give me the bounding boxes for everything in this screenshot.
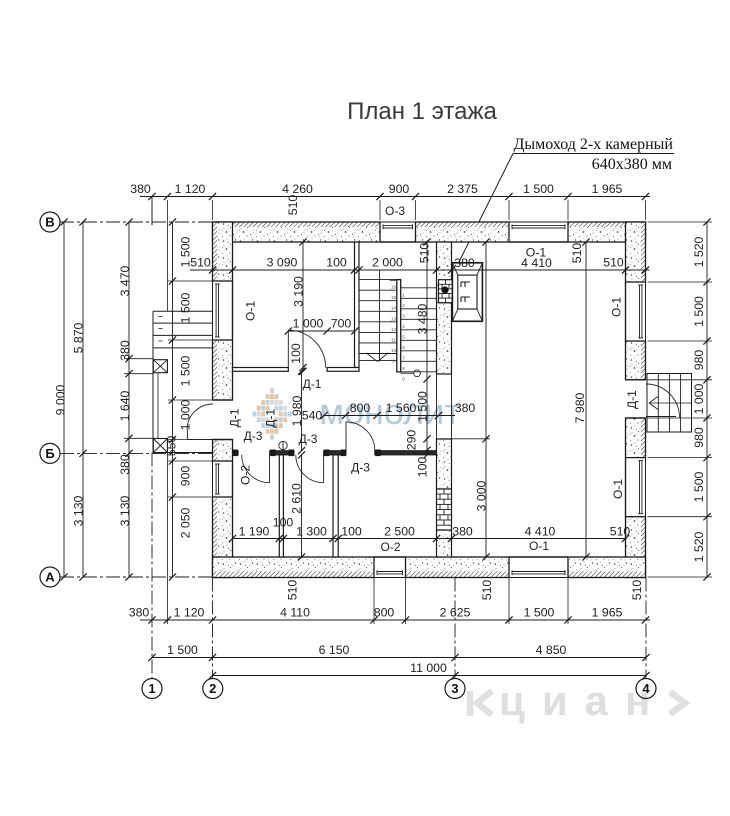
main stair right flight (401, 288, 437, 372)
svg-text:Б: Б (45, 446, 54, 461)
door D-3 to room O-2 (242, 455, 270, 483)
partition right of room 1 (355, 242, 360, 368)
left dimension column inner (165, 218, 193, 580)
svg-text:1 500: 1 500 (179, 355, 193, 386)
bottom dimension row 2 (148, 643, 649, 661)
exterior wall left: pier below door (213, 440, 233, 462)
svg-text:3 000: 3 000 (475, 480, 489, 511)
svg-text:100: 100 (341, 525, 362, 539)
partition under room 1 (left of door) (233, 368, 289, 372)
svg-text:1 980: 1 980 (290, 395, 304, 426)
svg-text:О-2: О-2 (239, 465, 253, 485)
svg-text:1 500: 1 500 (523, 182, 554, 196)
right room dim 7980 (573, 238, 590, 560)
svg-text:510: 510 (603, 256, 624, 270)
exterior stair right (647, 374, 692, 433)
axis line 2 (212, 578, 214, 679)
hall height dim 1980 (290, 368, 305, 455)
svg-text:13: 13 (391, 316, 397, 321)
bottom dimension row 3 (11000) (209, 661, 650, 679)
svg-text:1 500: 1 500 (524, 606, 555, 620)
axis line Bb (60, 452, 213, 454)
svg-text:14: 14 (391, 306, 397, 311)
svg-text:Д-1: Д-1 (303, 377, 322, 391)
svg-text:3 190: 3 190 (292, 276, 306, 307)
svg-text:Д-1: Д-1 (228, 408, 242, 427)
exterior wall left: pier B-window (213, 222, 233, 281)
svg-text:6 150: 6 150 (319, 643, 350, 657)
svg-text:План 1 этажа: План 1 этажа (347, 98, 497, 125)
door D-3 to middle room (346, 422, 375, 451)
svg-text:1 500: 1 500 (179, 292, 193, 323)
main stair center stringer (390, 280, 401, 372)
window O-2 left wall lower (213, 461, 233, 497)
svg-text:510: 510 (480, 580, 494, 601)
door D-3 to room 2 (296, 455, 324, 483)
svg-text:О-1: О-1 (529, 539, 549, 553)
room1 door dim (285, 317, 359, 335)
exterior wall bottom-left pier (213, 557, 375, 578)
svg-text:100: 100 (273, 516, 294, 530)
svg-text:О-1: О-1 (610, 297, 624, 317)
svg-text:11: 11 (391, 337, 396, 342)
axis circle 4 (636, 679, 656, 699)
svg-text:510: 510 (286, 580, 300, 601)
stair step numbers (391, 285, 405, 382)
svg-text:900: 900 (179, 466, 193, 487)
svg-text:2 625: 2 625 (440, 606, 471, 620)
door D-1 left wall (entrance from porch) (187, 400, 233, 440)
hall south partition segment 1 (233, 451, 239, 455)
svg-text:Д-3: Д-3 (351, 461, 370, 475)
bottom wall thickness labels (286, 580, 645, 601)
watermark cian logo (470, 691, 685, 716)
svg-text:3 480: 3 480 (416, 303, 430, 334)
exterior wall top-right pier (568, 222, 646, 242)
svg-text:10: 10 (391, 348, 397, 353)
door D-1 right wall (to exterior stair) (626, 380, 680, 418)
exterior wall bottom-middle pier (406, 557, 510, 578)
svg-text:980: 980 (692, 427, 706, 448)
svg-text:1 965: 1 965 (592, 606, 623, 620)
partition under room 1 (right of door) (327, 368, 359, 372)
svg-text:1 120: 1 120 (174, 606, 205, 620)
vent symbol at partition A (279, 441, 287, 450)
svg-text:1 520: 1 520 (692, 236, 706, 267)
svg-text:380: 380 (118, 454, 132, 475)
svg-text:Д-3: Д-3 (299, 432, 318, 446)
hall south partition segment 2 (270, 451, 294, 455)
exterior wall right: bottom pier (626, 517, 646, 578)
room1 vertical dim 3190/100 (289, 238, 307, 375)
stair dim column 3480/1500/290/100 (405, 238, 431, 477)
svg-text:550: 550 (165, 436, 179, 457)
svg-text:2 000: 2 000 (372, 256, 403, 270)
exterior wall left: pier bottom (213, 497, 233, 578)
svg-text:1 000: 1 000 (179, 399, 193, 430)
svg-text:380: 380 (455, 401, 476, 415)
interior bearing wall upper part (437, 242, 452, 374)
right dimension column (648, 218, 713, 580)
interior bearing wall lower part (437, 439, 452, 557)
svg-text:1 500: 1 500 (167, 643, 198, 657)
svg-text:15: 15 (391, 295, 397, 300)
exterior wall right: pier between window and door (626, 341, 646, 380)
svg-text:800: 800 (350, 401, 371, 415)
svg-text:380: 380 (454, 256, 475, 270)
svg-text:290: 290 (405, 430, 419, 451)
svg-text:4 410: 4 410 (521, 256, 552, 270)
svg-text:О-2: О-2 (380, 540, 400, 554)
svg-text:О-1: О-1 (611, 479, 625, 499)
right room dim 3000 (440, 238, 490, 560)
exterior wall bottom-right pier (568, 557, 646, 578)
axis circle 3 (445, 679, 465, 699)
interior bearing wall opening (437, 374, 452, 439)
svg-text:Д-1: Д-1 (625, 390, 639, 409)
svg-text:4: 4 (642, 681, 650, 696)
svg-text:1: 1 (148, 681, 155, 696)
svg-text:1 000: 1 000 (692, 383, 706, 414)
svg-text:3 130: 3 130 (118, 495, 132, 526)
interior dim row upper (190, 243, 650, 274)
svg-text:7 980: 7 980 (573, 392, 587, 423)
svg-text:Дымоход 2-х камерный: Дымоход 2-х камерный (513, 136, 673, 153)
axis line 1 (151, 197, 153, 226)
stair direction line with arrow (366, 270, 420, 377)
svg-text:2 610: 2 610 (290, 483, 304, 514)
svg-text:510: 510 (570, 243, 584, 264)
door jamb blocks on hall partition (233, 450, 381, 457)
left dimension column 3470/380/1640/380/3130 (118, 218, 132, 580)
stove (452, 263, 482, 322)
svg-text:4 110: 4 110 (280, 606, 310, 620)
svg-text:12: 12 (391, 327, 397, 332)
axis circle B (40, 212, 60, 232)
axis line 4 (645, 578, 647, 679)
svg-text:1 500: 1 500 (692, 471, 706, 502)
svg-text:1 190: 1 190 (239, 525, 270, 539)
svg-text:1 500: 1 500 (692, 296, 706, 327)
svg-text:2 500: 2 500 (384, 525, 415, 539)
svg-text:Д-3: Д-3 (244, 429, 263, 443)
svg-text:3 470: 3 470 (118, 265, 132, 296)
room O-2 height dim 2610 (290, 451, 306, 560)
axis circle A (40, 567, 60, 587)
svg-text:1 300: 1 300 (296, 525, 327, 539)
exterior wall left: pier between windows (213, 340, 233, 400)
svg-text:4 410: 4 410 (525, 525, 556, 539)
porch column 2 (153, 439, 167, 453)
svg-text:380: 380 (452, 525, 473, 539)
bottom interior dim row (229, 516, 631, 543)
svg-text:16: 16 (391, 285, 397, 290)
svg-text:1 520: 1 520 (692, 531, 706, 562)
svg-text:100: 100 (326, 256, 347, 270)
svg-text:4 850: 4 850 (536, 643, 567, 657)
svg-text:3: 3 (451, 681, 458, 696)
svg-text:900: 900 (389, 182, 410, 196)
svg-text:2 050: 2 050 (179, 507, 193, 538)
svg-text:640x380 мм: 640x380 мм (592, 156, 672, 173)
exterior wall right: top pier (626, 222, 646, 282)
porch steps (153, 311, 213, 452)
svg-text:380: 380 (130, 182, 151, 196)
chimney leader line (513, 153, 674, 155)
svg-text:1 500: 1 500 (416, 391, 430, 422)
svg-text:2 375: 2 375 (447, 182, 478, 196)
svg-text:510: 510 (417, 243, 431, 264)
interior wall brick section (437, 489, 452, 530)
svg-text:980: 980 (692, 350, 706, 371)
axis line A (60, 576, 213, 578)
svg-text:1 560: 1 560 (386, 401, 417, 415)
svg-text:510: 510 (630, 580, 644, 601)
axis line 3 (454, 578, 456, 679)
chimney leader dot (441, 286, 448, 293)
svg-text:700: 700 (331, 317, 352, 331)
svg-text:100: 100 (289, 343, 303, 364)
exterior wall right: pier below door (626, 418, 646, 458)
svg-text:В: В (45, 215, 54, 230)
axis circle Bb (40, 443, 60, 463)
svg-text:100: 100 (416, 457, 430, 478)
svg-text:2: 2 (209, 681, 216, 696)
window O-1 top wall (509, 222, 568, 242)
axis line B (60, 221, 213, 223)
porch column 1 (153, 360, 167, 373)
partition A (279, 455, 283, 557)
svg-text:4 260: 4 260 (282, 182, 313, 196)
window O-1 right wall upper (626, 282, 646, 341)
svg-text:3 090: 3 090 (267, 256, 298, 270)
svg-text:510: 510 (610, 525, 631, 539)
bottom dimension row 1 (129, 455, 650, 624)
left witness lines (124, 281, 213, 497)
hall south partition segment 3 (324, 451, 346, 455)
exterior wall top-middle pier (416, 222, 510, 242)
svg-text:1 640: 1 640 (118, 390, 132, 421)
partition B (333, 455, 338, 557)
svg-text:380: 380 (129, 606, 150, 620)
axis circle 1 (142, 679, 162, 699)
window O-1 left wall upper (213, 281, 233, 340)
window O-1 bottom wall (509, 557, 568, 578)
svg-text:О-1: О-1 (244, 301, 258, 321)
chimney brick block in wall (439, 280, 453, 303)
door D-1 room 1 (288, 330, 325, 367)
svg-text:3 130: 3 130 (72, 495, 86, 526)
window O-2 bottom wall (374, 557, 406, 578)
svg-text:О-3: О-3 (385, 204, 405, 218)
svg-text:1 000: 1 000 (293, 317, 324, 331)
svg-text:11 000: 11 000 (410, 661, 447, 675)
svg-text:1 120: 1 120 (175, 182, 206, 196)
svg-text:А: А (45, 570, 55, 585)
window O-1 right wall lower (626, 458, 646, 517)
svg-text:5 870: 5 870 (72, 322, 86, 353)
top dimension row (130, 182, 650, 311)
svg-text:Д-1: Д-1 (264, 409, 278, 428)
hall south partition segment 4 (375, 451, 437, 455)
svg-text:380: 380 (118, 340, 132, 361)
hall dim row (302, 401, 476, 423)
svg-text:9 000: 9 000 (53, 384, 67, 415)
left dimension column 9000 (53, 218, 67, 580)
axis circle 2 (203, 679, 223, 699)
svg-text:1 965: 1 965 (592, 182, 623, 196)
svg-text:800: 800 (374, 606, 395, 620)
main stair left flight (359, 280, 397, 361)
svg-text:510: 510 (190, 256, 211, 270)
window O-3 top wall (380, 222, 416, 242)
svg-text:510: 510 (286, 195, 300, 216)
watermark monolit logo dots (253, 388, 292, 439)
svg-text:540: 540 (302, 409, 323, 423)
left dimension column 5870/3130 (72, 218, 87, 580)
exterior wall top-left pier (213, 222, 381, 242)
